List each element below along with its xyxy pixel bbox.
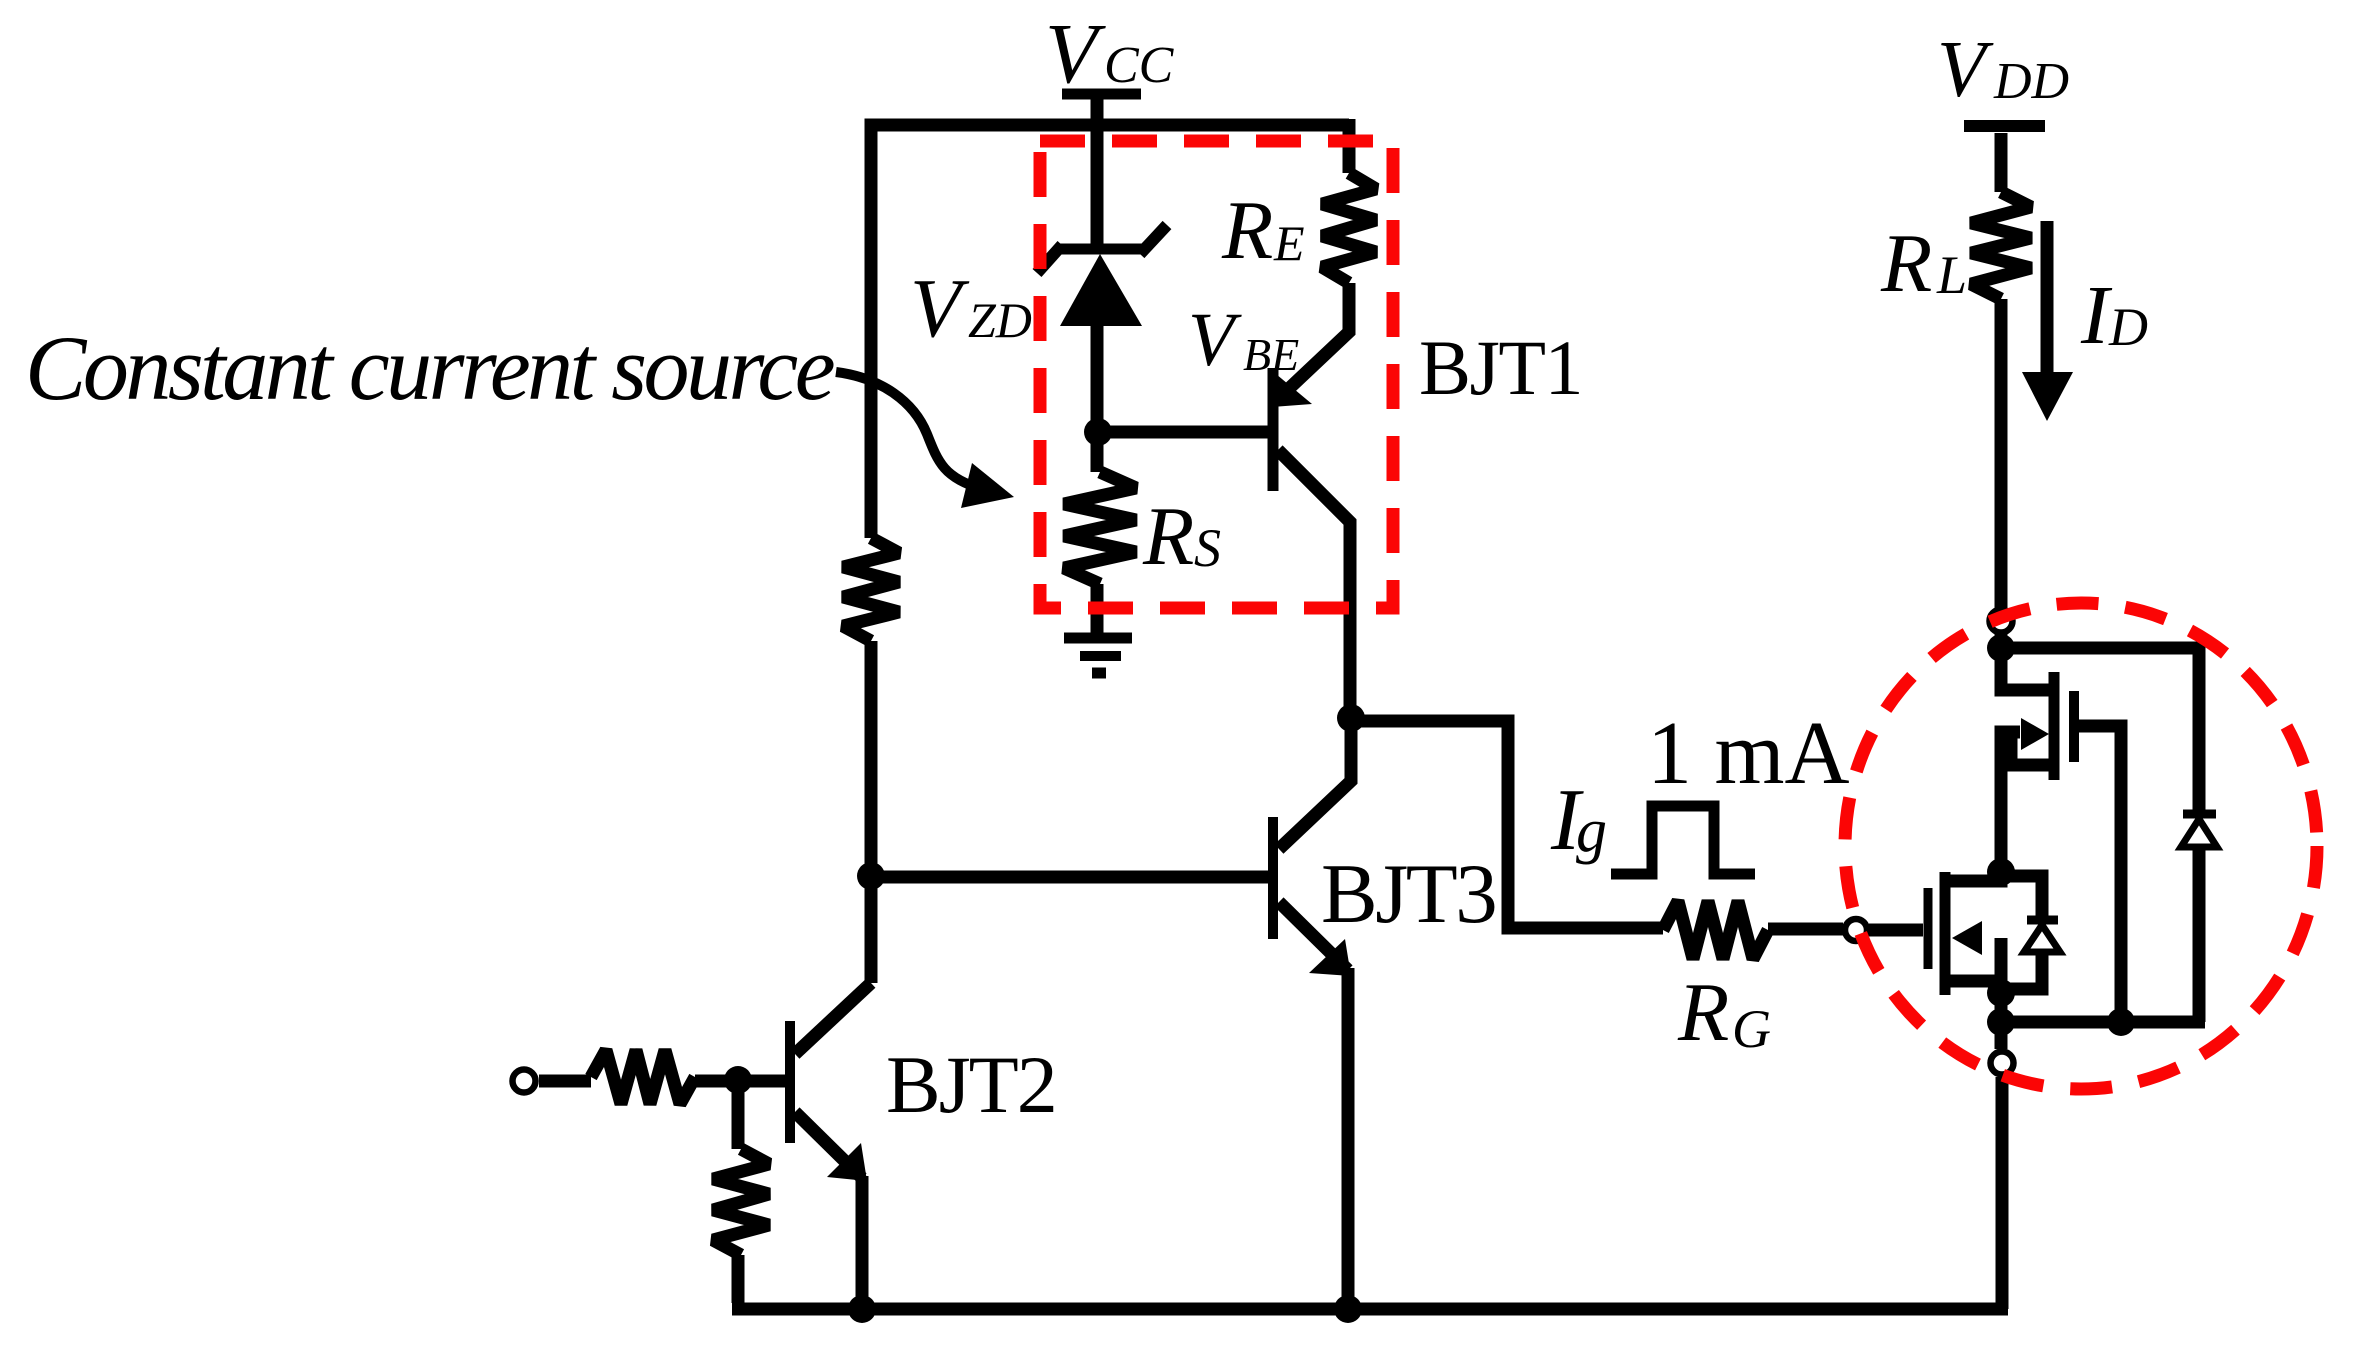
wire node B to RG drop	[1351, 721, 1663, 928]
wire JFET gate return	[2074, 726, 2121, 1022]
wire MOSFET source lead	[1950, 981, 2001, 993]
TERMINALS (open circles)	[513, 610, 2014, 1093]
wire MOSFET body lead vertical	[1995, 938, 2008, 993]
svg-text:ZD: ZD	[968, 292, 1032, 348]
diode outer antiparallel	[2181, 814, 2217, 847]
wire body diode bottom	[2001, 952, 2042, 989]
power symbol VCC bar	[1062, 89, 1141, 100]
node JFET gate rail	[2107, 1008, 2135, 1036]
arrow BJT3 emitter (NPN)	[1309, 939, 1351, 976]
label VBE	[1188, 298, 1299, 382]
wire cascode bottom rail	[2001, 1016, 2205, 1029]
wire gate terminal to MOSFET	[1869, 924, 1923, 937]
node left wire BJT3 base	[857, 862, 885, 890]
svg-text:S: S	[1194, 518, 1221, 578]
transistor BJT3 base bar	[1268, 817, 1278, 939]
terminal gate	[1845, 919, 1867, 941]
wire RE bottom to BJT1 emitter	[1280, 283, 1349, 397]
svg-text:G: G	[1732, 999, 1771, 1059]
node cascode source rail	[1987, 1008, 2015, 1036]
label ID	[2080, 269, 2148, 362]
wire bottom rail	[732, 1303, 2008, 1316]
current arrow ID	[2022, 221, 2073, 421]
wire left vertical below left resistor	[865, 641, 878, 983]
ARROWS	[827, 369, 2049, 1181]
node BJT2 emitter rail	[848, 1295, 876, 1323]
terminal drain	[1990, 610, 2013, 633]
wire pulldown to rail	[732, 1255, 745, 1303]
label VDD	[1937, 26, 2069, 114]
wire zener to node A	[1091, 324, 1104, 472]
wire VDD stem	[1995, 133, 2008, 192]
svg-text:1 mA: 1 mA	[1647, 704, 1850, 803]
node BJT3 collector	[1337, 704, 1365, 732]
wire MOSFET drain lead	[1950, 872, 2001, 881]
wire drain terminal to node C	[1995, 634, 2008, 655]
wire source terminal to bottom rail	[1996, 1077, 2009, 1309]
body diode of MOSFET	[2024, 920, 2060, 952]
red dashed circle cascode module	[1845, 603, 2317, 1089]
node cascode drain	[1987, 634, 2015, 662]
MOSFET channel bar	[1940, 872, 1951, 995]
resistor pulldown BJT2	[713, 1149, 769, 1255]
svg-text:BJT3: BJT3	[1321, 847, 1495, 941]
wire cascode source rail	[1995, 993, 2008, 1049]
resistor left branch	[843, 538, 899, 641]
power symbol VDD bar	[1964, 120, 2045, 132]
svg-text:R: R	[1677, 966, 1729, 1059]
svg-text:D: D	[2108, 297, 2148, 357]
wire BJT2 emitter vertical	[856, 1176, 869, 1309]
node MOSFET drain	[1987, 858, 2015, 886]
svg-text:Constant current source: Constant current source	[25, 317, 834, 419]
svg-text:V: V	[1937, 26, 1994, 114]
svg-text:E: E	[1273, 215, 1305, 271]
COMPONENT BARS	[790, 94, 2074, 1143]
svg-text:R: R	[1142, 490, 1194, 583]
svg-text:CC: CC	[1104, 37, 1175, 94]
label RG	[1677, 966, 1771, 1059]
svg-text:V: V	[1045, 5, 1106, 101]
pulse waveform Ig	[1611, 806, 1755, 874]
svg-text:BJT1: BJT1	[1419, 324, 1582, 411]
svg-text:g: g	[1576, 797, 1607, 865]
svg-text:DD: DD	[1993, 53, 2069, 110]
resistor RL	[1971, 192, 2031, 299]
resistor input	[591, 1050, 695, 1104]
label RS	[1142, 490, 1221, 583]
wire input resistor to BJT2 base	[695, 1075, 785, 1088]
arrow BJT1 emitter (PNP)	[1270, 369, 1312, 407]
svg-text:V: V	[910, 262, 970, 355]
label VZD	[910, 262, 1032, 355]
terminal input	[513, 1070, 536, 1093]
wire VCC stem	[1091, 99, 1104, 245]
svg-text:BJT2: BJT2	[886, 1039, 1056, 1130]
wire JFET drain lead	[2001, 648, 2049, 690]
MOSFET gate bar	[1924, 888, 1933, 969]
wire JFET source path	[2001, 732, 2049, 872]
arrow JFET	[2021, 718, 2049, 750]
leader arrow to constant current source	[836, 372, 1014, 508]
JFET gate bar	[2069, 691, 2079, 762]
transistor BJT1 base bar	[1268, 368, 1279, 491]
wire BJT3 base lead	[871, 871, 1268, 884]
arrow MOSFET body	[1952, 921, 1982, 955]
wire RE branch top	[1343, 119, 1356, 173]
wire BJT3 emitter	[1279, 902, 1348, 970]
label RE	[1221, 184, 1305, 277]
wire BJT1 collector	[1278, 450, 1350, 718]
wire input to base	[539, 1075, 591, 1088]
wire top rail VCC	[871, 125, 1349, 538]
wire BJT2 emitter	[795, 1112, 862, 1178]
node BJT3 emitter rail	[1334, 1295, 1362, 1323]
svg-text:BE: BE	[1243, 329, 1299, 380]
red dashed box constant current source	[1040, 141, 1393, 608]
transistor BJT2 base bar	[785, 1021, 795, 1143]
wire node A to RS and ground	[1091, 584, 1104, 633]
ground	[1064, 638, 1132, 673]
wire RL to drain terminal	[1995, 299, 2008, 608]
wire BJT3 collector	[1279, 718, 1351, 849]
svg-text:L: L	[1936, 245, 1967, 305]
zener diode VZD	[1037, 225, 1167, 326]
label Ig	[1550, 772, 1607, 869]
node zener-RS-base	[1084, 418, 1112, 446]
wire BJT3 emitter vertical	[1342, 968, 1355, 1309]
label VCC	[1045, 5, 1175, 101]
svg-text:R: R	[1221, 184, 1273, 277]
wire BJT1 base lead	[1092, 426, 1268, 439]
svg-text:R: R	[1880, 217, 1932, 310]
wire cascode top rail	[2001, 642, 2199, 655]
terminal source	[1991, 1052, 2014, 1075]
wire pulldown branch	[732, 1081, 745, 1149]
arrow BJT2 emitter (NPN)	[827, 1143, 867, 1181]
wire JFET source arrow lead	[2001, 726, 2020, 739]
RESISTORS	[591, 173, 2031, 1255]
node MOSFET source diode	[1987, 979, 2015, 1007]
wire body diode top	[2001, 876, 2042, 916]
wire outer diode branch bottom	[2193, 846, 2206, 1022]
label RL	[1880, 217, 1967, 310]
wire BJT2 collector	[795, 983, 871, 1054]
node BJT2 base	[724, 1066, 752, 1094]
resistor RS	[1064, 472, 1136, 584]
resistor RG	[1663, 901, 1768, 959]
svg-text:V: V	[1188, 298, 1242, 382]
resistor RE	[1322, 173, 1376, 283]
wire outer diode branch top	[2193, 642, 2206, 812]
wire RG to gate terminal	[1768, 923, 1843, 936]
JFET channel bar	[2049, 672, 2060, 780]
